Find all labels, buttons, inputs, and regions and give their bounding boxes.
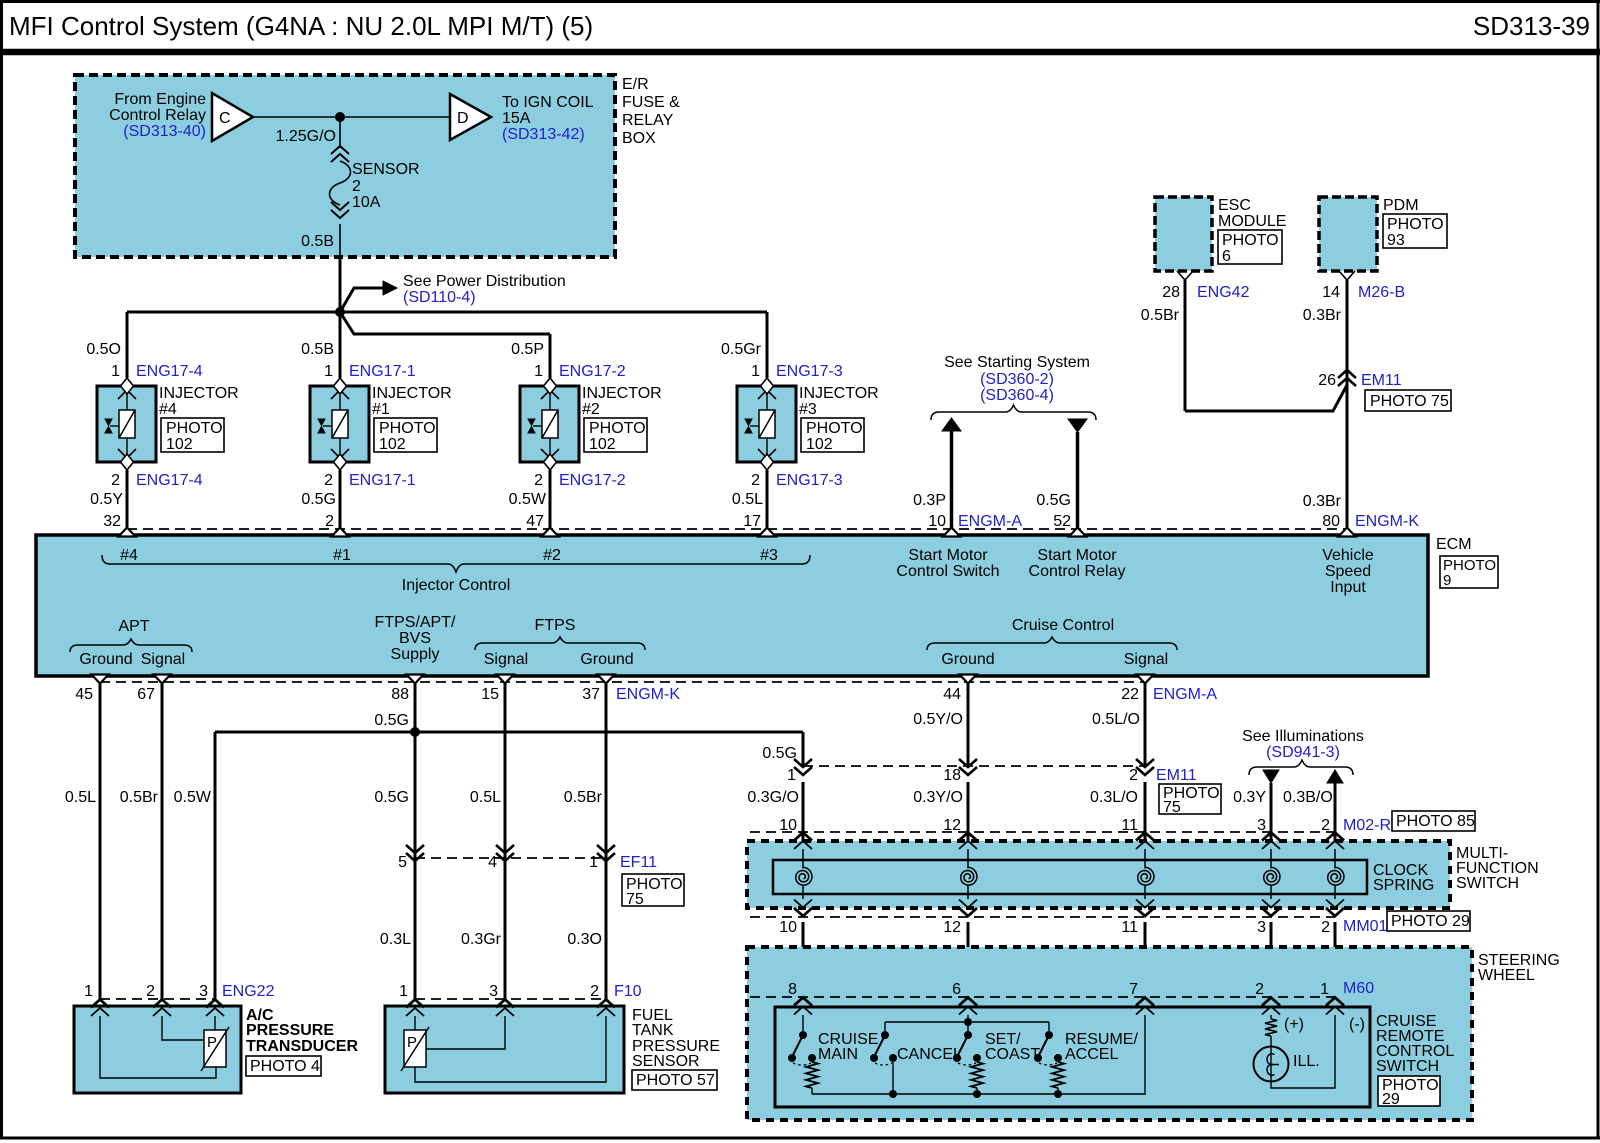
svg-text:88: 88 (391, 686, 409, 703)
svg-text:(SD360-2): (SD360-2) (980, 371, 1054, 388)
svg-text:M26-B: M26-B (1358, 284, 1405, 301)
svg-text:ILL.: ILL. (1293, 1053, 1320, 1070)
svg-text:9: 9 (1443, 572, 1451, 589)
svg-text:FTPS: FTPS (535, 617, 576, 634)
svg-text:Ground: Ground (79, 651, 132, 668)
svg-text:#1: #1 (372, 401, 390, 418)
svg-text:MM01: MM01 (1343, 918, 1388, 935)
svg-text:(SD313-40): (SD313-40) (123, 123, 206, 140)
svg-text:See Power Distribution: See Power Distribution (403, 273, 566, 290)
svg-text:SENSOR: SENSOR (632, 1053, 700, 1070)
svg-text:0.5G: 0.5G (374, 712, 409, 729)
svg-text:67: 67 (137, 686, 155, 703)
svg-text:M02-R: M02-R (1343, 817, 1391, 834)
svg-text:1: 1 (324, 363, 333, 380)
svg-text:BVS: BVS (399, 630, 431, 647)
svg-text:TANK: TANK (632, 1022, 674, 1039)
svg-text:7: 7 (1129, 981, 1138, 998)
svg-text:0.5W: 0.5W (174, 789, 212, 806)
svg-text:PHOTO 85: PHOTO 85 (1396, 813, 1475, 830)
svg-text:Signal: Signal (141, 651, 185, 668)
svg-text:0.5L/O: 0.5L/O (1092, 711, 1140, 728)
svg-text:0.3G/O: 0.3G/O (747, 789, 799, 806)
svg-text:93: 93 (1387, 232, 1405, 249)
svg-text:0.5Br: 0.5Br (564, 789, 603, 806)
svg-text:TRANSDUCER: TRANSDUCER (246, 1038, 358, 1055)
svg-text:5: 5 (398, 854, 407, 871)
svg-text:EM11: EM11 (1361, 372, 1402, 389)
svg-text:ACCEL: ACCEL (1065, 1046, 1118, 1063)
svg-text:WHEEL: WHEEL (1478, 967, 1535, 984)
svg-text:0.3L/O: 0.3L/O (1090, 789, 1138, 806)
svg-text:10: 10 (779, 817, 797, 834)
svg-text:From Engine: From Engine (114, 91, 206, 108)
svg-text:MFI Control System (G4NA : NU: MFI Control System (G4NA : NU 2.0L MPI M… (9, 11, 593, 41)
svg-text:3: 3 (1257, 817, 1266, 834)
svg-text:Start Motor: Start Motor (908, 547, 988, 564)
svg-text:INJECTOR: INJECTOR (372, 385, 452, 402)
svg-text:FUSE &: FUSE & (622, 94, 680, 111)
svg-text:52: 52 (1053, 513, 1071, 530)
svg-text:3: 3 (199, 983, 208, 1000)
svg-text:0.5B: 0.5B (301, 233, 334, 250)
svg-text:1: 1 (534, 363, 543, 380)
svg-text:102: 102 (806, 436, 833, 453)
svg-text:1: 1 (787, 767, 796, 784)
svg-text:1: 1 (751, 363, 760, 380)
svg-text:1: 1 (399, 983, 408, 1000)
svg-text:2: 2 (534, 472, 543, 489)
svg-text:11: 11 (1121, 817, 1138, 834)
svg-text:ENG17-4: ENG17-4 (136, 363, 203, 380)
svg-text:ENGM-A: ENGM-A (1153, 686, 1217, 703)
svg-text:0.3O: 0.3O (567, 931, 602, 948)
svg-text:0.3P: 0.3P (913, 492, 946, 509)
svg-text:102: 102 (379, 436, 406, 453)
svg-text:ENG17-4: ENG17-4 (136, 472, 203, 489)
svg-text:PHOTO 57: PHOTO 57 (636, 1072, 715, 1089)
svg-text:0.5Br: 0.5Br (120, 789, 159, 806)
svg-text:6: 6 (952, 981, 961, 998)
svg-text:10A: 10A (352, 194, 381, 211)
svg-text:ENG17-3: ENG17-3 (776, 363, 843, 380)
svg-text:#1: #1 (333, 547, 351, 564)
svg-text:2: 2 (1129, 767, 1138, 784)
svg-text:2: 2 (1321, 919, 1330, 936)
svg-text:Input: Input (1330, 579, 1366, 596)
svg-text:Signal: Signal (484, 651, 528, 668)
svg-text:0.3L: 0.3L (380, 931, 411, 948)
svg-text:0.5Gr: 0.5Gr (721, 341, 762, 358)
svg-text:10: 10 (928, 513, 946, 530)
svg-text:#3: #3 (799, 401, 817, 418)
svg-text:28: 28 (1162, 284, 1180, 301)
svg-text:ENG17-2: ENG17-2 (559, 472, 626, 489)
svg-text:2: 2 (325, 513, 334, 530)
svg-text:ENG17-1: ENG17-1 (349, 472, 416, 489)
svg-text:0.3B/O: 0.3B/O (1283, 789, 1333, 806)
svg-text:11: 11 (1121, 919, 1138, 936)
svg-text:ENG17-1: ENG17-1 (349, 363, 416, 380)
svg-text:3: 3 (1257, 919, 1266, 936)
svg-text:SWITCH: SWITCH (1456, 875, 1519, 892)
svg-text:PHOTO: PHOTO (379, 420, 436, 437)
svg-text:4: 4 (488, 854, 497, 871)
svg-text:37: 37 (582, 686, 600, 703)
svg-text:Supply: Supply (391, 646, 440, 663)
svg-text:2: 2 (324, 472, 333, 489)
svg-text:(SD313-42): (SD313-42) (502, 126, 585, 143)
svg-text:8: 8 (788, 981, 797, 998)
svg-text:(SD360-4): (SD360-4) (980, 387, 1054, 404)
svg-text:0.5Y/O: 0.5Y/O (913, 711, 963, 728)
svg-text:INJECTOR: INJECTOR (159, 385, 239, 402)
svg-text:Control Relay: Control Relay (109, 107, 206, 124)
svg-text:ENG17-2: ENG17-2 (559, 363, 626, 380)
svg-text:0.5L: 0.5L (65, 789, 96, 806)
svg-text:ENG17-3: ENG17-3 (776, 472, 843, 489)
svg-text:PHOTO: PHOTO (589, 420, 646, 437)
svg-text:15A: 15A (502, 110, 531, 127)
svg-text:0.5G: 0.5G (1036, 492, 1071, 509)
svg-text:APT: APT (118, 618, 149, 635)
svg-text:15: 15 (481, 686, 499, 703)
svg-text:CANCEL: CANCEL (897, 1046, 962, 1063)
svg-text:INJECTOR: INJECTOR (799, 385, 879, 402)
svg-text:(-): (-) (1349, 1016, 1365, 1033)
svg-text:80: 80 (1322, 513, 1340, 530)
svg-text:0.5L: 0.5L (470, 789, 501, 806)
svg-text:1: 1 (84, 983, 93, 1000)
svg-text:14: 14 (1322, 284, 1340, 301)
svg-text:0.5Y: 0.5Y (90, 491, 123, 508)
svg-text:#2: #2 (543, 547, 561, 564)
svg-text:75: 75 (626, 891, 644, 908)
svg-text:SD313-39: SD313-39 (1473, 11, 1590, 41)
svg-text:Control Relay: Control Relay (1029, 563, 1126, 580)
svg-text:FTPS/APT/: FTPS/APT/ (375, 614, 456, 631)
svg-text:Ground: Ground (580, 651, 633, 668)
svg-text:Start Motor: Start Motor (1037, 547, 1117, 564)
svg-text:Ground: Ground (941, 651, 994, 668)
svg-text:0.3Y/O: 0.3Y/O (913, 789, 963, 806)
svg-text:ECM: ECM (1436, 536, 1472, 553)
svg-text:2: 2 (352, 178, 361, 195)
svg-text:12: 12 (943, 919, 961, 936)
svg-text:3: 3 (489, 983, 498, 1000)
svg-text:MAIN: MAIN (818, 1046, 858, 1063)
svg-text:29: 29 (1382, 1091, 1400, 1108)
svg-text:ENGM-A: ENGM-A (958, 513, 1022, 530)
svg-text:MODULE: MODULE (1218, 213, 1286, 230)
svg-text:Speed: Speed (1325, 563, 1371, 580)
svg-text:ENG42: ENG42 (1197, 284, 1250, 301)
svg-text:Vehicle: Vehicle (1322, 547, 1374, 564)
svg-text:F10: F10 (614, 983, 642, 1000)
svg-text:102: 102 (589, 436, 616, 453)
svg-text:0.3Br: 0.3Br (1303, 493, 1342, 510)
svg-text:2: 2 (146, 983, 155, 1000)
svg-text:18: 18 (943, 767, 961, 784)
svg-text:PDM: PDM (1383, 197, 1419, 214)
svg-text:2: 2 (111, 472, 120, 489)
svg-text:1: 1 (589, 854, 598, 871)
svg-text:Signal: Signal (1124, 651, 1168, 668)
svg-text:2: 2 (590, 983, 599, 1000)
svg-text:RELAY: RELAY (622, 112, 674, 129)
svg-text:See Starting System: See Starting System (944, 354, 1090, 371)
svg-text:COAST: COAST (985, 1046, 1040, 1063)
svg-text:PHOTO 29: PHOTO 29 (1391, 913, 1470, 930)
svg-text:ENGM-K: ENGM-K (1355, 513, 1419, 530)
svg-text:26: 26 (1318, 372, 1336, 389)
svg-text:2: 2 (1255, 981, 1264, 998)
svg-text:102: 102 (166, 436, 193, 453)
svg-text:#3: #3 (760, 547, 778, 564)
svg-text:2: 2 (751, 472, 760, 489)
svg-text:PHOTO: PHOTO (1222, 232, 1279, 249)
svg-text:SPRING: SPRING (1373, 877, 1434, 894)
svg-text:Injector Control: Injector Control (402, 577, 511, 594)
svg-text:(SD941-3): (SD941-3) (1266, 744, 1340, 761)
svg-text:32: 32 (103, 513, 121, 530)
svg-text:10: 10 (779, 919, 797, 936)
svg-text:0.5G: 0.5G (374, 789, 409, 806)
svg-text:SENSOR: SENSOR (352, 161, 420, 178)
svg-text:#4: #4 (159, 401, 177, 418)
svg-text:BOX: BOX (622, 130, 656, 147)
svg-text:INJECTOR: INJECTOR (582, 385, 662, 402)
svg-text:1: 1 (1320, 981, 1329, 998)
svg-text:0.5Br: 0.5Br (1141, 307, 1180, 324)
svg-text:2: 2 (1321, 817, 1330, 834)
svg-text:SWITCH: SWITCH (1376, 1058, 1439, 1075)
svg-text:45: 45 (75, 686, 93, 703)
svg-text:PHOTO: PHOTO (1387, 216, 1444, 233)
svg-text:44: 44 (943, 686, 961, 703)
svg-text:22: 22 (1121, 686, 1139, 703)
svg-text:D: D (457, 110, 469, 127)
svg-text:(+): (+) (1284, 1016, 1304, 1033)
svg-text:PHOTO: PHOTO (166, 420, 223, 437)
svg-text:C: C (219, 110, 231, 127)
svg-text:See Illuminations: See Illuminations (1242, 728, 1364, 745)
svg-text:12: 12 (943, 817, 961, 834)
svg-text:#2: #2 (582, 401, 600, 418)
svg-text:0.3Gr: 0.3Gr (461, 931, 502, 948)
svg-text:0.5W: 0.5W (509, 491, 547, 508)
svg-text:M60: M60 (1343, 980, 1374, 997)
svg-text:(SD110-4): (SD110-4) (403, 289, 476, 306)
svg-text:0.5P: 0.5P (511, 341, 544, 358)
svg-text:EM11: EM11 (1156, 767, 1197, 784)
svg-text:EF11: EF11 (620, 854, 657, 871)
svg-text:1.25G/O: 1.25G/O (276, 128, 336, 145)
svg-text:0.5B: 0.5B (301, 341, 334, 358)
svg-text:75: 75 (1163, 799, 1181, 816)
svg-text:PRESSURE: PRESSURE (246, 1022, 334, 1039)
svg-text:0.5L: 0.5L (732, 491, 763, 508)
svg-text:PHOTO 75: PHOTO 75 (1370, 393, 1449, 410)
svg-text:PHOTO: PHOTO (806, 420, 863, 437)
svg-text:ENG22: ENG22 (222, 983, 275, 1000)
svg-text:0.5G: 0.5G (301, 491, 336, 508)
svg-text:17: 17 (743, 513, 761, 530)
svg-text:Control Switch: Control Switch (896, 563, 999, 580)
svg-text:0.5O: 0.5O (86, 341, 121, 358)
svg-text:1: 1 (111, 363, 120, 380)
svg-text:0.5G: 0.5G (762, 745, 797, 762)
svg-text:E/R: E/R (622, 76, 649, 93)
svg-text:0.3Br: 0.3Br (1303, 307, 1342, 324)
svg-text:ENGM-K: ENGM-K (616, 686, 680, 703)
svg-text:PHOTO 4: PHOTO 4 (250, 1058, 320, 1075)
svg-text:Cruise Control: Cruise Control (1012, 617, 1114, 634)
svg-text:ESC: ESC (1218, 197, 1251, 214)
svg-text:0.3Y: 0.3Y (1233, 789, 1266, 806)
svg-text:To IGN COIL: To IGN COIL (502, 94, 594, 111)
svg-text:6: 6 (1222, 248, 1231, 265)
svg-text:47: 47 (526, 513, 544, 530)
svg-text:#4: #4 (120, 547, 138, 564)
